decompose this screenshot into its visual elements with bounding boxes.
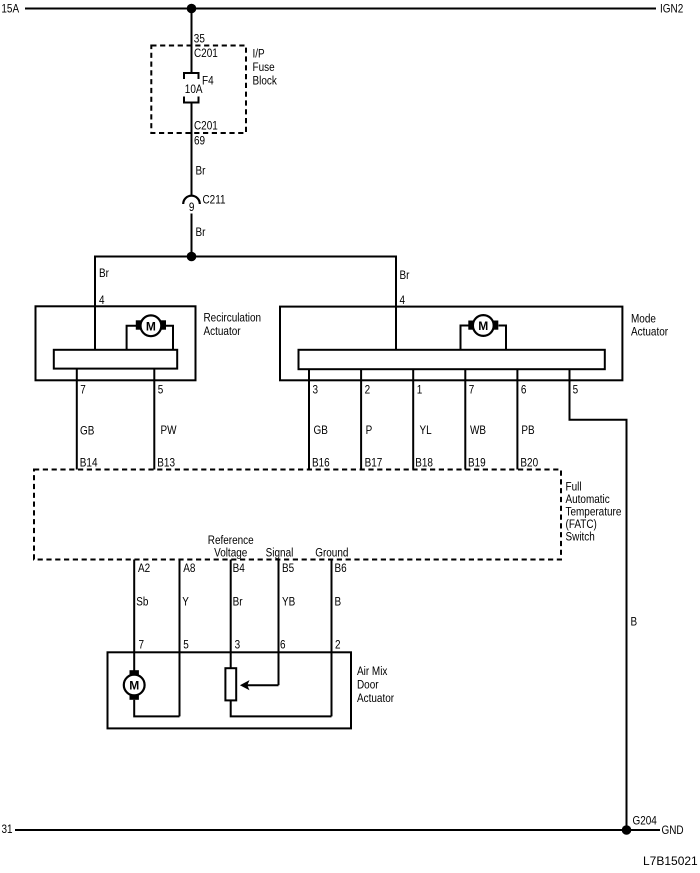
svg-text:Signal: Signal xyxy=(266,547,294,560)
svg-text:Br: Br xyxy=(196,226,206,239)
svg-text:Automatic: Automatic xyxy=(566,493,611,506)
svg-text:YL: YL xyxy=(420,424,432,437)
svg-text:Actuator: Actuator xyxy=(204,325,241,338)
svg-text:B13: B13 xyxy=(157,457,175,470)
svg-text:B14: B14 xyxy=(80,457,98,470)
svg-text:Ground: Ground xyxy=(315,547,348,560)
wire distribution rail to recirculation and mode actuators (pins 4) xyxy=(95,257,396,351)
wiper arrow shaft xyxy=(246,684,279,686)
svg-text:Temperature: Temperature xyxy=(566,506,622,519)
svg-text:6: 6 xyxy=(280,639,286,652)
wire air mix motor bottom loop to pin 5 xyxy=(134,700,179,717)
svg-text:GB: GB xyxy=(80,425,94,438)
svg-text:6: 6 xyxy=(521,384,527,397)
motor M leads (mode) xyxy=(461,326,507,351)
svg-text:Recirculation: Recirculation xyxy=(204,312,262,325)
wire recirc pin 7 to FATC B14 xyxy=(76,369,78,470)
svg-text:G204: G204 xyxy=(633,815,657,828)
svg-text:M: M xyxy=(478,319,488,333)
junction node at distribution rail xyxy=(187,252,197,262)
svg-text:B19: B19 xyxy=(468,457,486,470)
svg-text:M: M xyxy=(129,679,139,693)
wire potentiometer bottom loop to pin 2 xyxy=(231,700,332,716)
svg-text:Switch: Switch xyxy=(566,531,595,544)
svg-text:3: 3 xyxy=(313,384,319,397)
wire recirc pin 5 to FATC B13 xyxy=(153,369,155,470)
svg-text:B17: B17 xyxy=(365,457,383,470)
wire FATC B4 to potentiometer top (pin 3) xyxy=(230,560,232,669)
svg-text:7: 7 xyxy=(139,639,145,652)
svg-text:Actuator: Actuator xyxy=(631,326,668,339)
svg-text:Block: Block xyxy=(253,75,278,88)
svg-text:B: B xyxy=(631,616,638,629)
svg-text:I/P: I/P xyxy=(253,48,265,61)
svg-text:PB: PB xyxy=(521,424,534,437)
motor M leads (recirculation) xyxy=(127,326,173,351)
svg-text:5: 5 xyxy=(158,384,164,397)
svg-text:(FATC): (FATC) xyxy=(566,518,597,531)
wire GND bottom rail xyxy=(15,829,660,831)
wire mode pin 2 to FATC B17 xyxy=(360,369,362,469)
svg-text:Voltage: Voltage xyxy=(214,547,247,560)
motor M terminal left (mode) xyxy=(468,321,473,330)
svg-text:69: 69 xyxy=(194,135,205,148)
svg-text:GND: GND xyxy=(662,824,684,837)
svg-text:Full: Full xyxy=(566,481,582,494)
junction node at G204 xyxy=(622,825,632,835)
svg-text:Br: Br xyxy=(196,165,206,178)
wire from IGN2 rail down to fuse F4 xyxy=(191,9,193,73)
svg-text:15A: 15A xyxy=(1,3,19,16)
svg-text:C211: C211 xyxy=(203,194,226,207)
motor M circle (mode) xyxy=(473,315,494,336)
svg-text:YB: YB xyxy=(282,596,295,609)
svg-text:4: 4 xyxy=(99,294,105,307)
svg-text:B20: B20 xyxy=(520,457,538,470)
wire fuse F4 to connector C211 xyxy=(191,103,193,197)
svg-text:L7B15021: L7B15021 xyxy=(643,854,698,868)
motor M terminal bottom (air mix) xyxy=(130,695,139,700)
svg-text:3: 3 xyxy=(235,639,241,652)
svg-text:10A: 10A xyxy=(185,83,203,96)
fuse F4 top bracket xyxy=(184,73,199,79)
motor M terminal right (recirculation) xyxy=(161,320,166,329)
svg-text:31: 31 xyxy=(2,823,13,836)
wire mode pin 1 to FATC B18 xyxy=(412,369,414,469)
svg-text:C201: C201 xyxy=(194,120,218,133)
wire connector C211 to junction node xyxy=(191,214,193,258)
motor M terminal left (recirculation) xyxy=(136,320,141,329)
motor M circle (air mix) xyxy=(124,675,145,696)
motor M circle (recirculation) xyxy=(141,315,162,336)
svg-text:Br: Br xyxy=(233,596,243,609)
svg-text:5: 5 xyxy=(183,639,189,652)
svg-text:P: P xyxy=(366,424,373,437)
motor M terminal top (air mix) xyxy=(130,670,139,675)
svg-text:Br: Br xyxy=(99,267,109,280)
svg-text:B16: B16 xyxy=(312,457,330,470)
svg-text:Door: Door xyxy=(357,679,379,692)
svg-text:C201: C201 xyxy=(194,47,218,60)
svg-text:Y: Y xyxy=(182,596,189,609)
svg-text:B18: B18 xyxy=(415,457,433,470)
svg-text:GB: GB xyxy=(314,424,328,437)
svg-text:M: M xyxy=(146,319,156,333)
svg-text:B4: B4 xyxy=(233,562,245,575)
svg-text:7: 7 xyxy=(80,384,86,397)
svg-text:2: 2 xyxy=(365,384,371,397)
svg-text:PW: PW xyxy=(161,424,178,437)
svg-text:IGN2: IGN2 xyxy=(660,3,683,16)
mode actuator connector strip xyxy=(299,350,605,369)
svg-text:1: 1 xyxy=(417,384,423,397)
motor M terminal right (mode) xyxy=(493,321,498,330)
svg-text:B5: B5 xyxy=(282,562,294,575)
connector C211 half-circle xyxy=(183,196,200,204)
svg-text:WB: WB xyxy=(470,424,486,437)
svg-text:4: 4 xyxy=(400,294,406,307)
air mix door actuator box xyxy=(108,652,352,728)
svg-text:2: 2 xyxy=(335,639,341,652)
svg-text:Fuse: Fuse xyxy=(253,61,275,74)
svg-text:9: 9 xyxy=(189,201,195,214)
svg-text:Actuator: Actuator xyxy=(357,692,394,705)
wire mode pin 7 to FATC B19 xyxy=(464,369,466,469)
svg-text:5: 5 xyxy=(573,384,579,397)
recirculation actuator box xyxy=(36,306,196,380)
wire FATC B6 to potentiometer bottom (pin 2) xyxy=(331,560,333,717)
wire FATC B5 to wiper (pin 6) xyxy=(278,560,280,686)
wire IGN2 top rail xyxy=(25,8,656,10)
svg-text:35: 35 xyxy=(194,33,205,46)
svg-text:Mode: Mode xyxy=(631,313,656,326)
wire FATC A8 to air mix pin 5 xyxy=(179,560,181,717)
svg-text:B: B xyxy=(335,596,342,609)
svg-text:A8: A8 xyxy=(183,562,195,575)
svg-text:Br: Br xyxy=(400,269,410,282)
svg-text:A2: A2 xyxy=(138,562,150,575)
mode actuator box xyxy=(280,307,622,381)
wiper arrowhead xyxy=(240,680,250,690)
potentiometer body xyxy=(225,668,236,700)
svg-text:Sb: Sb xyxy=(136,596,148,609)
wire mode pin 6 to FATC B20 xyxy=(516,369,518,469)
wire mode pin 3 to FATC B16 xyxy=(308,369,310,469)
recirculation actuator connector strip xyxy=(54,350,177,369)
svg-text:Air Mix: Air Mix xyxy=(357,665,388,678)
wire FATC A2 to air mix motor xyxy=(133,560,135,671)
I/P fuse block dashed box xyxy=(151,46,246,134)
fuse F4 bottom bracket xyxy=(184,97,199,103)
svg-text:F4: F4 xyxy=(202,75,214,88)
FATC switch dashed box xyxy=(34,470,561,560)
svg-text:B6: B6 xyxy=(335,562,347,575)
junction node at IGN2 rail xyxy=(187,4,197,14)
wire mode pin 5 to ground G204 (net B) xyxy=(570,369,627,830)
svg-text:Reference: Reference xyxy=(208,534,254,547)
svg-text:7: 7 xyxy=(469,384,475,397)
